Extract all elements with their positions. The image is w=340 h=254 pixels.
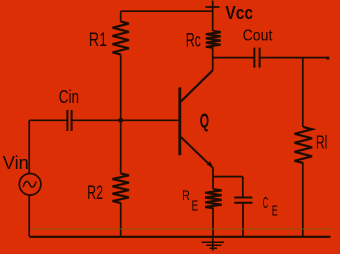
svg-text:R: R (182, 188, 190, 203)
wire Vin to Cin (29, 119, 67, 121)
svg-text:Cout: Cout (243, 27, 273, 44)
Vcc terminal (206, 1, 220, 12)
svg-text:Vin: Vin (3, 152, 29, 173)
wire R1 top lead (120, 11, 122, 21)
resistor R1 (113, 22, 129, 55)
svg-text:Rc: Rc (186, 30, 201, 52)
capacitor CE (234, 198, 252, 203)
svg-text:E: E (272, 204, 278, 220)
wire Vin top lead (28, 120, 30, 174)
wire Rc top lead (212, 11, 214, 31)
transistor Q base bar (178, 87, 181, 155)
svg-text:R1: R1 (89, 29, 107, 51)
ground symbol bars (202, 242, 224, 248)
wire collector node to Cout (213, 57, 254, 59)
resistor Rc (206, 31, 221, 48)
resistor Rl (295, 127, 313, 163)
transistor Q emitter arrowhead (207, 161, 214, 167)
transistor Q collector lead (181, 70, 213, 101)
wire CE bottom lead (242, 203, 244, 237)
svg-text:R2: R2 (87, 183, 103, 204)
capacitor Cout (254, 48, 259, 68)
svg-text:Rl: Rl (316, 133, 328, 153)
transistor Q emitter lead (181, 137, 212, 167)
wire ground rail (bottom) (29, 236, 330, 238)
svg-text:Vcc: Vcc (225, 3, 253, 23)
svg-text:E: E (192, 199, 199, 215)
wire CE top lead (242, 177, 244, 197)
wire R2 top lead (120, 120, 122, 173)
wire emitter lead vertical (212, 167, 214, 177)
capacitor Cin (67, 110, 71, 131)
wire output (Cout to terminal) (260, 57, 329, 59)
svg-text:C: C (263, 195, 268, 212)
junction base node dot (118, 118, 123, 123)
wire base (Cin to transistor base) (72, 119, 178, 121)
svg-text:Cin: Cin (59, 86, 79, 107)
wire Vin bottom lead (28, 195, 30, 237)
ghost artifact line (30, 228, 331, 230)
svg-text:Q: Q (200, 109, 209, 132)
wire RE bottom lead (212, 208, 214, 236)
wire RE top lead (212, 177, 214, 190)
resistor R2 (113, 174, 129, 204)
source Vin sine symbol (23, 181, 36, 187)
source Vin circle (19, 174, 41, 196)
ground stub (212, 237, 214, 251)
wire top rail (R1 top to Vcc node) (121, 10, 214, 12)
wire Rl top lead (302, 58, 304, 127)
wire R2 bottom lead (120, 203, 122, 237)
wire R1 bottom lead to base node (120, 55, 122, 121)
output terminal dot (326, 57, 329, 60)
wire Rl bottom lead (302, 163, 304, 236)
wire Rc bottom lead / collector vertical (212, 48, 214, 71)
wire emitter node bar (213, 176, 243, 178)
resistor RE (205, 189, 222, 208)
